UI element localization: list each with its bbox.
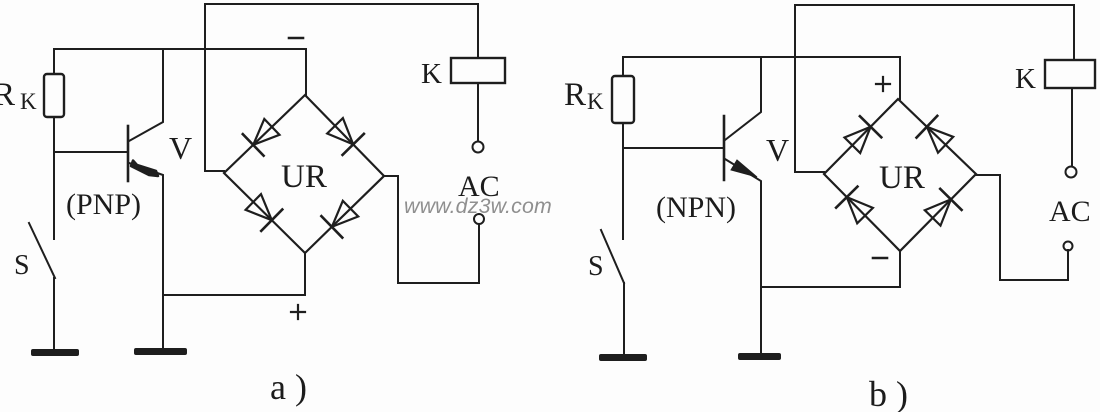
svg-text:b ): b ) <box>869 374 908 412</box>
svg-text:V: V <box>766 132 789 168</box>
wire: bridge bottom vertex lead (b) <box>899 251 901 287</box>
ground under switch (a) <box>31 349 79 356</box>
switch S blade (a) <box>29 223 55 278</box>
wire: bottom return emitter to bridge bottom (a) <box>163 294 305 296</box>
wire: bottom return emitter to bridge bottom (b) <box>762 286 900 288</box>
resistor RK (b) <box>612 76 634 123</box>
diode D4 bottom-right (b) <box>925 189 962 226</box>
diode D3 bottom-left (a) <box>246 194 283 231</box>
diode D2 right-top (b) <box>917 116 954 153</box>
wire: resistor bottom lead to base junction and on to switch (b) <box>622 123 624 239</box>
svg-text:R: R <box>564 77 586 113</box>
transistor V emitter arrow PNP (a) <box>131 161 158 177</box>
wire: collector lead from second bus (a) <box>129 49 163 141</box>
node minus label (a) <box>289 37 303 40</box>
node minus label (b) <box>873 257 887 260</box>
diode D1 top-left (a) <box>243 119 280 156</box>
wire: relay drop vertical (b) <box>1073 5 1075 60</box>
diode D4 bottom-right (a) <box>321 201 358 238</box>
svg-text:K: K <box>421 58 442 90</box>
wire: AC lower lead to bridge right vertex (a) <box>384 176 479 283</box>
switch S blade (b) <box>601 230 624 283</box>
svg-text:K: K <box>1015 63 1036 95</box>
node plus label (b) <box>876 77 890 91</box>
svg-text:K: K <box>20 89 37 114</box>
svg-text:S: S <box>588 251 604 282</box>
svg-text:a ): a ) <box>270 367 307 407</box>
wire: emitter lead down to ground (a) <box>129 163 163 349</box>
wire: relay drop vertical (a) <box>477 4 479 58</box>
wire: base lead (a) <box>54 151 127 153</box>
transistor V base bar (a) <box>127 126 130 181</box>
wire: base lead (b) <box>623 147 724 149</box>
wire: AC lower lead to bridge right vertex (b) <box>976 175 1068 280</box>
wire: bridge top vertex feed vertical (a) <box>305 49 307 95</box>
svg-text:AC: AC <box>1049 195 1091 228</box>
wire: top bus from node above bridge-left feed to relay K drop (a) <box>205 3 478 5</box>
diode D2 top-right (a) <box>327 118 364 155</box>
diode D3 bottom-left (b) <box>836 187 873 224</box>
ground under switch (b) <box>599 354 647 361</box>
svg-text:V: V <box>169 130 192 166</box>
svg-text:(NPN): (NPN) <box>656 191 736 224</box>
AC terminal upper circle (a) <box>473 142 484 153</box>
ground under emitter (b) <box>738 353 781 360</box>
diode D1 left-top (b) <box>845 116 882 153</box>
ground under emitter (a) <box>134 348 187 355</box>
node plus label (a) <box>291 305 305 319</box>
wire: switch bottom lead (a) <box>53 278 55 350</box>
wire: left vertical from top bus down to bridge left vertex (a) <box>205 4 224 171</box>
wire: relay bottom lead (a) <box>477 83 479 141</box>
transistor V base bar (b) <box>723 116 726 180</box>
wire: resistor bottom lead to base junction and on to switch (a) <box>53 117 55 239</box>
wire: top bus from bridge-left feed to relay K drop (b) <box>795 4 1074 6</box>
wire: emitter lead down to ground (b) <box>725 159 761 353</box>
wire: switch bottom lead (b) <box>623 283 625 355</box>
transistor V emitter arrow NPN (b) <box>731 160 757 177</box>
svg-text:K: K <box>587 89 604 114</box>
wire: collector lead from second bus (b) <box>725 57 761 140</box>
svg-text:S: S <box>14 250 30 281</box>
wire: second bus from resistor top to bridge top feed (a) <box>54 49 306 74</box>
wire: left vertical from top bus down to bridge left vertex (b) <box>795 5 824 172</box>
resistor RK (a) <box>44 74 64 117</box>
relay K coil box (a) <box>451 58 505 83</box>
wire: second bus from resistor top to bridge top feed (b) <box>623 57 900 76</box>
AC terminal upper circle (b) <box>1066 167 1077 178</box>
bridge UR diamond (a) <box>224 95 384 253</box>
AC terminal lower circle (a) <box>474 214 484 224</box>
bridge UR diamond (b) <box>824 99 976 251</box>
relay K coil box (b) <box>1045 60 1095 88</box>
wire: bridge top vertex feed vertical (b) <box>899 57 901 99</box>
svg-text:UR: UR <box>281 159 327 195</box>
wire: bridge bottom vertex lead (a) <box>304 253 306 295</box>
svg-text:R: R <box>0 77 15 113</box>
svg-text:UR: UR <box>879 160 925 196</box>
AC terminal lower circle (b) <box>1064 242 1073 251</box>
svg-text:(PNP): (PNP) <box>66 188 141 221</box>
wire: relay bottom lead (b) <box>1071 88 1073 166</box>
svg-text:www.dz3w.com: www.dz3w.com <box>404 194 552 218</box>
